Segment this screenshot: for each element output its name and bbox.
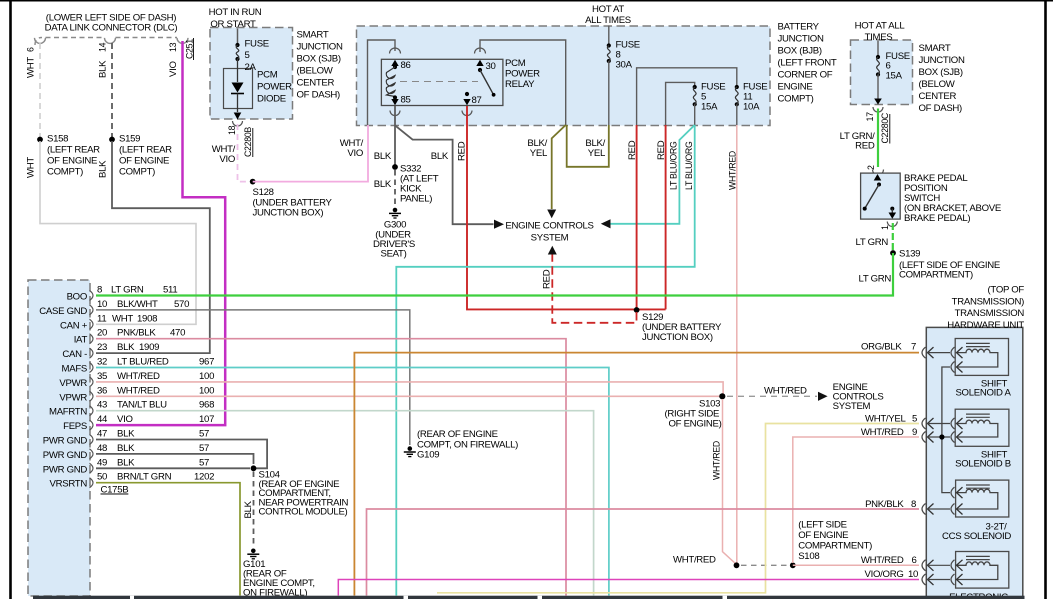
fuse 8 30A	[607, 40, 640, 71]
arrow BLK to engine controls system	[494, 220, 504, 229]
svg-text:POWER: POWER	[257, 82, 292, 93]
svg-text:IAT: IAT	[74, 335, 88, 346]
splice S332	[392, 164, 398, 170]
smart junction box SJB left (dashed, blue)	[210, 28, 293, 120]
PCM power relay box U1	[381, 59, 503, 105]
solenoid 3-2T/CCS solenoid coil winding	[957, 489, 998, 509]
wire BLK 57 row 47	[96, 440, 267, 469]
svg-text:BATTERY: BATTERY	[778, 22, 820, 33]
wire RED from relay 87 down to S129 level	[467, 106, 637, 309]
svg-text:BLK: BLK	[117, 342, 135, 353]
svg-text:BLK: BLK	[374, 179, 392, 190]
svg-text:57: 57	[199, 457, 209, 468]
label shift solenoid B	[955, 450, 1011, 470]
solenoid shift solenoid A coil winding	[957, 349, 998, 367]
svg-text:C251: C251	[185, 39, 195, 59]
wire LT BLU/ORG second branch long run	[396, 125, 694, 596]
svg-text:JUNCTION BOX): JUNCTION BOX)	[642, 332, 713, 343]
svg-text:DIODE: DIODE	[257, 94, 286, 105]
svg-text:107: 107	[199, 414, 214, 425]
wire WHT/VIO label right	[340, 138, 364, 159]
svg-text:S139: S139	[899, 249, 920, 260]
wire WHT/RED 100 row 36 to S103	[96, 395, 720, 397]
PCM wire id labels	[97, 285, 214, 483]
svg-text:WHT/YEL: WHT/YEL	[865, 413, 907, 424]
label HOT AT ALL TIMES right	[855, 21, 906, 44]
svg-text:(LEFT REAR: (LEFT REAR	[119, 145, 172, 156]
svg-text:(BELOW: (BELOW	[919, 79, 956, 90]
svg-text:7: 7	[911, 341, 916, 352]
svg-text:18: 18	[227, 125, 237, 135]
svg-text:TAN/LT BLU: TAN/LT BLU	[117, 400, 167, 411]
hook below SJB right	[873, 107, 883, 112]
svg-text:1909: 1909	[139, 342, 159, 353]
wire ORG/BLK 7	[354, 353, 919, 596]
arrow RED up to engine controls system	[548, 246, 557, 255]
solenoid electronic pressure control solenoid coil winding	[957, 562, 998, 580]
svg-text:COMPARTMENT): COMPARTMENT)	[899, 270, 973, 281]
fuse 5 and 11 outputs to box bottom	[694, 104, 696, 125]
wire BLK/YEL label 1	[527, 138, 548, 159]
relay actuation dashed line	[400, 81, 478, 83]
svg-text:PWR GND: PWR GND	[43, 464, 88, 475]
wire WHT/VIO label	[212, 144, 236, 165]
svg-text:C175B: C175B	[101, 485, 129, 496]
svg-text:VIO/ORG: VIO/ORG	[865, 569, 904, 580]
relay pin 86	[391, 60, 398, 66]
label LEFT SIDE OF ENGINE COMPARTMENT S108	[798, 520, 872, 563]
svg-text:HOT AT: HOT AT	[592, 4, 624, 15]
svg-text:968: 968	[199, 400, 214, 411]
solenoid shift solenoid B box	[955, 409, 1009, 446]
svg-text:30: 30	[486, 61, 496, 72]
wire BLK 57 row 48	[96, 454, 254, 464]
splice S103	[719, 393, 725, 399]
relay pin 85	[393, 95, 397, 99]
svg-text:6: 6	[912, 555, 917, 566]
svg-text:50: 50	[97, 472, 107, 483]
svg-text:SOLENOID B: SOLENOID B	[955, 459, 1011, 470]
svg-text:WHT/RED: WHT/RED	[117, 385, 160, 396]
transmission hardware unit box	[926, 327, 1023, 599]
svg-text:RED: RED	[542, 269, 553, 289]
frame left border	[9, 0, 12, 599]
svg-text:COMPARTMENT): COMPARTMENT)	[798, 541, 872, 552]
splice S159	[109, 137, 115, 143]
fuse 11 10A	[735, 82, 768, 113]
svg-text:BLK: BLK	[374, 151, 392, 162]
label SMART JUNCTION BOX (SJB) right	[919, 43, 965, 114]
svg-text:PCM: PCM	[505, 58, 526, 69]
svg-text:13: 13	[168, 42, 178, 52]
solenoid electronic pressure control solenoid pin hooks	[951, 560, 963, 585]
wire WHT from S158 to PCM pin 11	[40, 141, 196, 324]
wire WHT dashed from DLC pin 6 to S158	[39, 43, 41, 137]
svg-text:HARDWARE UNIT: HARDWARE UNIT	[947, 320, 1024, 331]
svg-text:5: 5	[912, 413, 917, 424]
svg-text:CCS SOLENOID: CCS SOLENOID	[942, 531, 1011, 542]
solenoid shift solenoid B pin hooks	[951, 418, 963, 443]
svg-text:WHT/RED: WHT/RED	[673, 555, 716, 566]
svg-text:CORNER OF: CORNER OF	[778, 70, 833, 81]
svg-text:YEL: YEL	[588, 148, 606, 159]
svg-text:LT BLU/ORG: LT BLU/ORG	[684, 141, 694, 190]
bus wire inside BJB to fuse 11 and fuse 5 feeds	[637, 68, 737, 125]
svg-text:57: 57	[199, 429, 209, 440]
ground G109	[404, 446, 416, 456]
svg-text:48: 48	[97, 443, 107, 454]
solenoid 3-2T/CCS solenoid box	[956, 480, 1009, 517]
svg-text:WHT/RED: WHT/RED	[728, 151, 738, 190]
ground G300	[389, 208, 401, 218]
svg-text:OF DASH): OF DASH)	[297, 90, 341, 101]
svg-text:1202: 1202	[194, 472, 214, 483]
splice S129	[637, 308, 666, 310]
svg-text:BLK: BLK	[431, 151, 449, 162]
svg-text:35: 35	[97, 371, 107, 382]
label TOP OF TRANSMISSION HARDWARE UNIT	[947, 285, 1024, 331]
solenoid electronic pressure control solenoid box	[956, 552, 1009, 589]
fuse 5 2A	[235, 39, 268, 74]
svg-text:BLK: BLK	[117, 443, 135, 454]
wire labels at transmission pins	[861, 341, 918, 580]
splice S158	[37, 137, 43, 143]
svg-text:PWR GND: PWR GND	[43, 450, 88, 461]
svg-text:VPWR: VPWR	[59, 378, 87, 389]
wire LT GRN brake switch to S139	[892, 223, 894, 251]
diode output arrow at SJB box bottom	[234, 113, 242, 120]
svg-text:RED: RED	[656, 140, 667, 160]
svg-text:COMPT): COMPT)	[119, 167, 155, 178]
frame top border	[0, 0, 1053, 2]
wire VIO/ORG 10	[338, 580, 919, 596]
svg-text:VIO: VIO	[117, 414, 133, 425]
relay coil	[386, 67, 395, 97]
svg-text:BLK: BLK	[98, 60, 109, 78]
hook above relay pin 30	[475, 48, 486, 54]
svg-text:WHT: WHT	[112, 313, 133, 324]
svg-text:TRANSMISSION): TRANSMISSION)	[952, 296, 1024, 307]
svg-text:RED: RED	[627, 140, 638, 160]
svg-text:BOX (SJB): BOX (SJB)	[919, 67, 963, 78]
DLC connector bracket	[35, 38, 189, 46]
wire RED dashed S129 to engine controls system	[552, 255, 636, 323]
svg-text:30A: 30A	[616, 60, 633, 71]
node ENGINE CONTROLS SYSTEM top	[505, 221, 593, 244]
wire WHT/VIO from S128 to relay coil pin 86	[253, 125, 368, 182]
svg-text:14: 14	[98, 42, 108, 52]
svg-text:511: 511	[163, 285, 177, 296]
hook above brake switch	[873, 170, 884, 176]
svg-text:C2280C: C2280C	[880, 112, 890, 143]
svg-text:S158: S158	[47, 134, 68, 145]
svg-text:OF ENGINE): OF ENGINE)	[669, 419, 722, 430]
hook below brake switch	[887, 222, 897, 227]
svg-text:C2280B: C2280B	[243, 127, 253, 157]
svg-text:1908: 1908	[137, 313, 157, 324]
svg-text:10A: 10A	[743, 102, 760, 113]
solenoid electronic pressure control solenoid core bars	[966, 555, 990, 557]
svg-text:10: 10	[908, 569, 918, 580]
svg-text:VPWR: VPWR	[59, 392, 87, 403]
svg-text:5: 5	[245, 50, 250, 61]
splice S108 dots and dashed link	[734, 562, 740, 568]
relay pin 87	[465, 92, 469, 96]
svg-text:SYSTEM: SYSTEM	[833, 401, 871, 412]
svg-text:LT BLU/RED: LT BLU/RED	[117, 357, 169, 368]
label HOT IN RUN OR START	[209, 7, 262, 30]
svg-text:FUSE: FUSE	[245, 39, 269, 50]
svg-text:100: 100	[199, 371, 214, 382]
svg-text:SMART: SMART	[919, 43, 951, 54]
svg-text:PWR GND: PWR GND	[43, 436, 88, 447]
connector hook below SJB left	[233, 121, 243, 126]
arrow LT BLU/ORG into engine controls system	[601, 219, 611, 228]
label 3-2T/CCS solenoid	[942, 522, 1011, 543]
svg-text:SOLENOID A: SOLENOID A	[955, 388, 1011, 399]
svg-text:ORG/BLK: ORG/BLK	[861, 341, 902, 352]
svg-text:9: 9	[912, 427, 917, 438]
svg-text:VIO: VIO	[347, 148, 363, 159]
PCM connector box (dashed, blue)	[28, 280, 90, 596]
svg-text:470: 470	[170, 328, 185, 339]
wire WHT/VIO dashed from diode to S128	[238, 124, 250, 182]
svg-text:RED: RED	[457, 141, 468, 161]
label PCM POWER RELAY	[505, 58, 540, 90]
svg-text:2A: 2A	[245, 62, 257, 73]
svg-text:COMPT): COMPT)	[47, 167, 83, 178]
wire from relay 30 to fuse 8 bus inside box	[480, 40, 566, 125]
svg-text:(LEFT FRONT: (LEFT FRONT	[778, 58, 837, 69]
svg-text:32: 32	[97, 357, 107, 368]
wire BLK from S159 to PCM pin 23	[96, 141, 210, 353]
wire PNK/BLK 470 row 20	[96, 339, 566, 596]
svg-text:MAFS: MAFS	[62, 364, 87, 375]
svg-text:8: 8	[911, 499, 916, 510]
svg-text:(LEFT REAR: (LEFT REAR	[47, 145, 100, 156]
svg-text:WHT/RED: WHT/RED	[861, 555, 904, 566]
label shift solenoid A	[955, 379, 1011, 399]
PCM power diode box	[224, 69, 253, 109]
wire BLK/YEL label 2	[585, 138, 606, 159]
wire LT GRN S139 to PCM pin 8	[96, 253, 893, 296]
wire inside BJB from WHT/VIO to relay pin 86	[368, 40, 396, 125]
svg-text:44: 44	[97, 414, 108, 425]
wire BLK 57 row 49	[96, 467, 250, 469]
label HOT AT ALL TIMES center	[585, 4, 631, 26]
svg-text:CAN -: CAN -	[62, 349, 87, 360]
svg-text:RED: RED	[855, 141, 875, 152]
svg-text:TRANSMISSION: TRANSMISSION	[955, 308, 1025, 319]
svg-text:VIO: VIO	[168, 61, 179, 77]
svg-text:S159: S159	[119, 134, 140, 145]
wire LT BLU/ORG from fuse 5 to arrow	[611, 125, 695, 224]
svg-text:CAN +: CAN +	[60, 320, 88, 331]
svg-text:LT GRN: LT GRN	[111, 285, 144, 296]
svg-text:S108: S108	[798, 551, 819, 562]
wire BLK dashed S104 to G101	[253, 472, 255, 547]
wire BLK dashed from DLC pin 14 to S159	[111, 43, 113, 137]
svg-text:G109: G109	[417, 450, 439, 461]
svg-text:PNK/BLK: PNK/BLK	[865, 499, 904, 510]
svg-text:57: 57	[199, 443, 209, 454]
svg-text:HOT AT ALL: HOT AT ALL	[855, 21, 906, 32]
svg-text:23: 23	[97, 342, 107, 353]
svg-text:47: 47	[97, 429, 107, 440]
svg-text:87: 87	[472, 95, 482, 106]
svg-text:(LEFT SIDE: (LEFT SIDE	[798, 520, 847, 531]
solenoid shift solenoid A box	[955, 339, 1008, 376]
svg-text:WHT/RED: WHT/RED	[712, 441, 722, 480]
wire WHT/RED from fuse 11 down to S108	[736, 125, 738, 564]
smart junction box SJB right (dashed, blue)	[851, 40, 913, 105]
svg-text:FEPS: FEPS	[63, 421, 87, 432]
arrow BLK/YEL down to engine controls system	[547, 210, 556, 219]
svg-text:100: 100	[199, 385, 214, 396]
svg-text:CENTER: CENTER	[297, 78, 335, 89]
svg-text:8: 8	[97, 285, 102, 296]
wire WHT/RED S108 up to row 9	[793, 437, 919, 563]
diode symbol	[231, 59, 244, 112]
fuse 6 15A	[876, 51, 910, 82]
svg-text:VIO: VIO	[219, 154, 235, 165]
svg-text:CONTROL MODULE): CONTROL MODULE)	[259, 507, 348, 518]
svg-text:(BELOW: (BELOW	[297, 66, 334, 77]
svg-text:BOO: BOO	[67, 292, 87, 303]
svg-text:OF DASH): OF DASH)	[919, 103, 963, 114]
wire LT GRN/RED label	[840, 131, 875, 152]
fuse 5 15A	[693, 82, 726, 113]
svg-text:S128: S128	[253, 187, 274, 198]
solenoid 3-2T/CCS solenoid pin hooks	[951, 487, 963, 514]
solenoid shift solenoid B core bars	[966, 413, 990, 415]
svg-text:15A: 15A	[886, 71, 903, 82]
svg-text:10: 10	[97, 299, 107, 310]
brake switch contacts and blade	[863, 183, 896, 219]
svg-text:WHT/RED: WHT/RED	[861, 427, 904, 438]
wire BLK dashed S332 to G300	[394, 170, 396, 206]
svg-text:JUNCTION: JUNCTION	[919, 55, 965, 66]
svg-text:1: 1	[880, 225, 890, 230]
wire PNK/BLK 8	[367, 509, 920, 596]
label DLC location	[45, 13, 178, 34]
svg-text:OF ENGINE: OF ENGINE	[119, 156, 169, 167]
svg-text:BRN/LT GRN: BRN/LT GRN	[117, 472, 172, 483]
svg-text:CASE GND: CASE GND	[39, 306, 87, 317]
wire LT GRN/RED fuse 6 to brake switch	[877, 109, 879, 168]
label SMART JUNCTION BOX (SJB) left	[297, 30, 343, 101]
bottom separator bar	[33, 596, 1025, 599]
PCM pin names	[39, 292, 87, 490]
wire WHT/RED dashed S103 to engine controls system	[727, 395, 817, 397]
transmission connector hooks and chevron arrows at box edge	[922, 347, 950, 585]
svg-text:OR START: OR START	[210, 19, 256, 30]
solenoid shift solenoid A core bars	[966, 342, 990, 344]
wire BLK/YEL from relay 30 exit to arrow	[552, 125, 566, 209]
svg-text:BOX (BJB): BOX (BJB)	[778, 46, 822, 57]
svg-text:43: 43	[97, 400, 107, 411]
svg-text:DATA LINK CONNECTOR (DLC): DATA LINK CONNECTOR (DLC)	[45, 23, 178, 34]
ground G101	[247, 549, 259, 559]
svg-text:WHT: WHT	[26, 57, 37, 78]
svg-text:HOT IN RUN: HOT IN RUN	[209, 7, 262, 18]
svg-text:CENTER: CENTER	[919, 91, 957, 102]
common return wire solenoid A to B junction to 3-2T	[942, 367, 950, 493]
battery junction box BJB (dashed, blue)	[357, 26, 771, 126]
hook below relay pin 87	[462, 111, 472, 116]
svg-text:86: 86	[401, 60, 411, 71]
svg-text:RELAY: RELAY	[505, 79, 535, 90]
wire BLK/YEL from fuse 8 joining relay 30	[567, 125, 609, 167]
node ENGINE CONTROLS SYSTEM right	[833, 382, 884, 412]
svg-text:2: 2	[866, 165, 876, 170]
svg-text:6: 6	[26, 47, 36, 52]
wire TAN/LT BLU 968 row 43	[96, 411, 594, 596]
svg-text:20: 20	[97, 328, 107, 339]
solenoid shift solenoid B coil winding	[957, 420, 998, 437]
svg-text:COMPT): COMPT)	[778, 94, 814, 105]
splice S104	[251, 465, 257, 471]
svg-text:MAFRTN: MAFRTN	[49, 407, 87, 418]
svg-text:WHT: WHT	[26, 157, 37, 178]
svg-text:967: 967	[199, 357, 214, 368]
svg-text:PANEL): PANEL)	[400, 194, 432, 205]
wire WHT/RED 100 row 35	[96, 382, 723, 396]
frame right border	[1044, 0, 1047, 599]
wire WHT/RED 6 S108 to EPC solenoid	[793, 564, 919, 566]
svg-text:BRAKE PEDAL): BRAKE PEDAL)	[904, 213, 970, 224]
hook above relay pin 86	[390, 48, 401, 54]
svg-text:JUNCTION: JUNCTION	[297, 42, 343, 53]
svg-text:17: 17	[865, 112, 875, 122]
splice S128	[250, 179, 256, 185]
label electronic pressure control solenoid	[949, 592, 1008, 599]
splice S139	[890, 250, 896, 256]
wire VIO from DLC pin 13 to PCM pin 44	[96, 41, 225, 425]
hook below relay pin 85	[390, 111, 400, 116]
svg-text:BLK: BLK	[117, 457, 135, 468]
svg-text:BLK/WHT: BLK/WHT	[117, 299, 158, 310]
relay switch blade	[480, 70, 494, 95]
label BATTERY JUNCTION BOX	[778, 22, 837, 105]
wire WHT/YEL 5	[437, 424, 919, 593]
svg-text:570: 570	[174, 299, 189, 310]
wire BRN/LT GRN 1202 row 50	[96, 483, 240, 596]
svg-text:SMART: SMART	[297, 30, 329, 41]
relay pin 30	[476, 60, 483, 66]
svg-text:ENGINE CONTROLS: ENGINE CONTROLS	[505, 221, 593, 232]
arrow to engine controls system right	[818, 392, 828, 401]
wire LT BLU/RED 967 row 32	[96, 368, 609, 596]
brake switch entry arrow	[874, 174, 882, 181]
wire BLK/WHT 570 to G109	[96, 310, 410, 445]
svg-text:OF ENGINE: OF ENGINE	[798, 530, 848, 541]
wire BLK from relay 85 to S332	[394, 106, 396, 165]
wire RED fuse feeds below box	[636, 125, 638, 309]
svg-text:BLK: BLK	[243, 500, 254, 518]
svg-text:WHT/RED: WHT/RED	[117, 371, 160, 382]
wire WHT/RED S103 down to S108	[723, 399, 737, 565]
junction dot common at row 9	[939, 434, 944, 439]
svg-text:85: 85	[401, 95, 411, 106]
svg-text:OF ENGINE: OF ENGINE	[47, 156, 97, 167]
svg-text:WHT/RED: WHT/RED	[764, 386, 807, 397]
solenoid shift solenoid A pin hooks	[951, 347, 963, 372]
feed wire to fuse 6	[877, 41, 879, 57]
svg-text:JUNCTION BOX): JUNCTION BOX)	[253, 208, 324, 219]
fuse 6 output arrow at box bottom	[877, 75, 879, 99]
svg-text:ENGINE: ENGINE	[778, 82, 813, 93]
